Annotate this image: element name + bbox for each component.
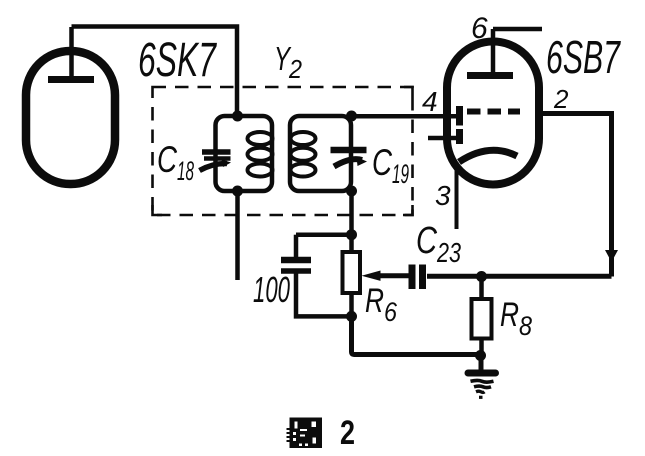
ground symbol <box>479 356 484 370</box>
svg-text:R6: R6 <box>365 282 398 327</box>
wire R6 bottom lead <box>349 293 354 316</box>
tube V2 plate bar <box>467 72 513 79</box>
node junction top of R6 <box>346 229 357 240</box>
cathode arc <box>459 150 517 162</box>
svg-text:C18: C18 <box>157 139 194 186</box>
svg-text:6SB7: 6SB7 <box>546 31 621 83</box>
transformer Y2 dashed enclosure <box>153 87 413 215</box>
grid bar g2 <box>456 129 463 144</box>
svg-text:3: 3 <box>435 180 451 211</box>
caption glyph 圖 <box>287 418 323 449</box>
tube V1 (6SK7 stage) envelope <box>26 51 115 184</box>
svg-text:6SK7: 6SK7 <box>138 34 218 87</box>
wire R6 top lead <box>349 235 354 250</box>
capacitor 100 lead <box>294 235 299 257</box>
tube V2 (6SB7) envelope <box>447 42 539 185</box>
inductor L2 (Y2 secondary winding) <box>290 116 351 191</box>
svg-text:Y2: Y2 <box>274 40 302 84</box>
node ground junction <box>475 350 486 361</box>
svg-text:2: 2 <box>553 84 569 114</box>
capacitor 100 plates <box>281 257 311 264</box>
capacitor 100 bottom lead <box>296 273 352 316</box>
svg-text:100: 100 <box>253 269 290 310</box>
wire C23 to node <box>427 274 612 279</box>
wire secondary bottom down <box>349 191 354 235</box>
R6 wiper arrowhead <box>362 271 381 281</box>
node primary bottom <box>232 186 243 197</box>
node primary top <box>232 111 243 122</box>
svg-text:C19: C19 <box>372 142 409 189</box>
resistor R6 (potentiometer) body <box>343 252 361 293</box>
wire AVC stub down from primary <box>235 191 240 280</box>
svg-text:2: 2 <box>340 414 355 452</box>
grid bar g1 (pin 4) <box>456 106 463 126</box>
capacitor C19 (variable trimmer) <box>331 147 367 154</box>
tube V1 top-cap electrode bar <box>48 76 94 83</box>
node C23 / R8 junction <box>476 271 487 282</box>
svg-text:4: 4 <box>422 86 438 117</box>
wire bottom return from R6 to ground node <box>352 316 482 354</box>
R6 wiper arrow wire <box>377 273 409 278</box>
wire pin 3 stub <box>455 162 459 229</box>
grid dashed line <box>467 109 520 115</box>
node secondary top <box>346 111 357 122</box>
wire plate lead to Y2 primary <box>72 27 238 114</box>
wire R8 bottom lead <box>479 338 484 358</box>
wire R8 top lead <box>479 277 484 300</box>
node secondary bottom <box>346 186 357 197</box>
wire pin 6 lead <box>491 29 496 76</box>
svg-text:6: 6 <box>471 12 488 45</box>
wire secondary top to grid pin 4 <box>352 114 460 119</box>
wire pin 2 plate output <box>537 114 612 277</box>
wire top-cap lead <box>69 27 74 79</box>
wire pin 6 top <box>493 27 542 32</box>
wire grid g2 stub <box>428 136 456 141</box>
arrowhead on plate wire <box>605 250 618 262</box>
capacitor C23 <box>409 265 416 290</box>
inductor L1 (Y2 primary winding) <box>216 116 273 191</box>
capacitor 100 branch top wire <box>296 232 352 237</box>
svg-text:R8: R8 <box>500 296 532 341</box>
capacitor C18 (variable trimmer) <box>202 149 231 155</box>
node bottom of R6 <box>346 311 357 322</box>
resistor R8 body <box>472 299 492 339</box>
